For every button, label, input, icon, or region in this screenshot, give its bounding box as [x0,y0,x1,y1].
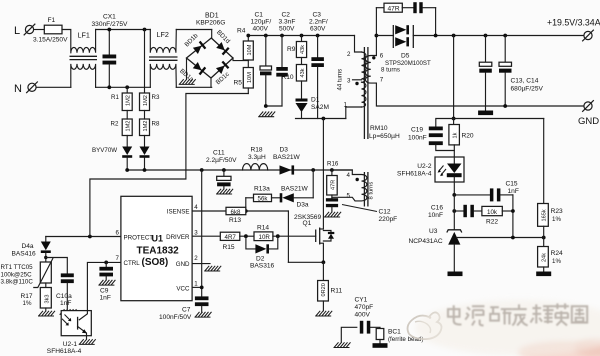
svg-text:C15: C15 [506,181,518,188]
svg-text:220pF: 220pF [379,216,398,223]
svg-text:43k: 43k [300,68,306,77]
svg-text:R13: R13 [229,217,241,224]
svg-text:4: 4 [194,204,198,211]
svg-text:6k8: 6k8 [231,209,242,216]
svg-text:R22: R22 [486,219,498,226]
svg-text:44 turns: 44 turns [338,69,344,91]
svg-text:D3a: D3a [297,202,309,209]
svg-text:PROTECT: PROTECT [124,234,154,241]
svg-text:1: 1 [344,102,348,109]
svg-text:U1: U1 [152,234,164,244]
svg-text:7: 7 [116,255,120,262]
svg-text:D2: D2 [256,256,265,263]
svg-text:3.15A/250V: 3.15A/250V [33,37,68,44]
svg-text:1nF: 1nF [100,295,111,302]
svg-text:3: 3 [194,229,198,236]
svg-text:7: 7 [380,77,384,84]
svg-text:F1: F1 [48,17,56,24]
svg-text:C9: C9 [100,288,109,295]
svg-text:2.2nF/: 2.2nF/ [309,19,328,26]
svg-text:1%: 1% [552,258,561,265]
svg-text:CX1: CX1 [103,14,116,21]
svg-text:10M: 10M [247,72,253,83]
svg-text:1M2: 1M2 [126,95,132,106]
svg-text:C3: C3 [313,12,322,19]
svg-text:C2: C2 [282,12,291,19]
svg-text:SA2M: SA2M [311,104,329,111]
svg-text:KBP206G: KBP206G [196,20,225,27]
svg-text:R1: R1 [111,94,119,101]
svg-text:TEA1832: TEA1832 [137,246,180,257]
svg-text:C13, C14: C13, C14 [511,78,539,85]
svg-text:VCC: VCC [176,285,190,292]
svg-text:1%: 1% [23,300,32,307]
svg-text:6: 6 [116,229,120,236]
svg-text:C12: C12 [379,209,391,216]
svg-text:0R20: 0R20 [321,283,327,296]
svg-text:R17: R17 [21,293,33,300]
svg-text:2: 2 [347,51,351,58]
svg-text:+19.5V/3.34A: +19.5V/3.34A [547,18,600,28]
svg-text:STPS20M100ST: STPS20M100ST [385,60,431,67]
svg-text:R18: R18 [251,147,263,154]
svg-text:1M2: 1M2 [143,121,149,132]
svg-text:100nF: 100nF [408,135,427,142]
svg-text:U2-1: U2-1 [63,341,78,348]
svg-text:630V: 630V [310,26,326,33]
svg-text:BAS21W: BAS21W [281,186,309,193]
svg-text:400V: 400V [253,26,269,33]
svg-text:R20: R20 [462,133,474,140]
svg-text:330nF/275V: 330nF/275V [92,21,129,28]
svg-text:Q1: Q1 [303,220,312,227]
svg-text:BAS416: BAS416 [12,251,37,258]
svg-text:D4a: D4a [22,243,34,250]
svg-text:R9: R9 [287,46,296,53]
svg-text:C1: C1 [255,12,264,19]
svg-text:BD1b: BD1b [183,32,199,48]
svg-text:500V: 500V [279,26,295,33]
svg-text:LF1: LF1 [78,31,90,40]
svg-text:RM10: RM10 [370,125,388,132]
svg-text:BD1: BD1 [205,13,219,20]
svg-text:SFH618A-4: SFH618A-4 [397,171,432,178]
svg-text:1M2: 1M2 [126,121,132,132]
svg-text:8 turns: 8 turns [381,67,400,74]
svg-text:D5: D5 [401,53,410,60]
svg-text:NCP431AC: NCP431AC [409,238,443,245]
svg-text:(SO8): (SO8) [142,257,169,268]
svg-text:100nF/50V: 100nF/50V [159,314,192,321]
svg-text:1%: 1% [552,216,561,223]
svg-text:R11: R11 [331,288,343,295]
svg-text:R15: R15 [223,244,235,251]
svg-text:3: 3 [347,78,351,85]
svg-text:10nF: 10nF [428,212,443,219]
svg-text:47R: 47R [388,6,400,13]
svg-text:56k: 56k [258,196,269,203]
svg-text:BYV70W: BYV70W [92,147,117,154]
svg-text:DRIVER: DRIVER [166,234,190,241]
svg-text:C19: C19 [411,127,423,134]
svg-text:165k: 165k [541,209,547,221]
svg-text:1M2: 1M2 [143,95,149,106]
svg-text:R3: R3 [152,94,160,101]
svg-text:U3: U3 [429,228,438,235]
svg-text:43k: 43k [300,45,306,54]
svg-text:R10: R10 [282,74,294,81]
svg-text:C16: C16 [431,205,443,212]
svg-text:120µF/: 120µF/ [251,19,272,26]
svg-text:C7: C7 [182,307,191,314]
svg-text:ISENSE: ISENSE [167,208,190,215]
svg-text:GND: GND [176,261,190,268]
svg-text:2.2µF/50V: 2.2µF/50V [206,157,237,164]
svg-text:SFH618A-4: SFH618A-4 [47,348,82,355]
svg-text:BC1: BC1 [388,329,401,336]
svg-text:R4: R4 [237,28,246,35]
svg-text:2: 2 [194,255,198,262]
svg-text:4R7: 4R7 [225,234,237,241]
svg-text:R16: R16 [327,161,339,168]
svg-text:1: 1 [194,281,198,288]
svg-text:100k@25C: 100k@25C [1,272,33,279]
svg-text:6: 6 [380,53,384,60]
svg-text:D1: D1 [311,97,320,104]
svg-text:R8: R8 [152,121,160,128]
svg-text:BAS316: BAS316 [250,263,275,270]
svg-text:R23: R23 [551,208,563,215]
svg-text:LF2: LF2 [157,30,169,39]
svg-text:GND: GND [578,116,599,127]
svg-text:10R: 10R [259,234,271,241]
svg-text:1nF: 1nF [508,188,519,195]
svg-text:R13a: R13a [254,186,270,193]
svg-text:10k: 10k [487,209,498,216]
svg-text:470pF: 470pF [355,304,374,311]
svg-text:3k3: 3k3 [44,294,50,303]
svg-text:R24: R24 [551,250,563,257]
svg-text:4: 4 [347,172,351,179]
svg-text:U2-2: U2-2 [417,163,432,170]
svg-text:N: N [14,83,22,95]
svg-text:10M: 10M [247,44,253,55]
svg-text:5: 5 [347,193,351,200]
svg-text:1nF: 1nF [60,300,71,307]
svg-text:400V: 400V [355,312,371,319]
svg-text:Lp=650µH: Lp=650µH [369,133,400,140]
svg-text:C11: C11 [213,150,225,157]
svg-text:680µF/25V: 680µF/25V [511,86,544,93]
svg-text:1k: 1k [453,132,459,138]
svg-text:3.3µH: 3.3µH [248,154,266,161]
svg-text:R14: R14 [257,225,269,232]
svg-text:R5: R5 [234,80,243,87]
svg-text:47R: 47R [330,180,336,190]
svg-text:3.3nF: 3.3nF [279,19,296,26]
svg-text:L: L [14,25,20,37]
svg-text:RT1 TTC05: RT1 TTC05 [1,264,34,271]
svg-text:8 turns: 8 turns [369,182,375,200]
svg-text:CY1: CY1 [355,297,368,304]
svg-text:CTRL: CTRL [124,260,141,267]
svg-text:24k: 24k [541,253,547,262]
svg-text:BD1a: BD1a [178,68,195,84]
svg-text:R2: R2 [111,121,119,128]
svg-text:3.8k@110C: 3.8k@110C [1,279,34,286]
svg-text:BAS21W: BAS21W [273,154,301,161]
svg-text:D3: D3 [280,147,289,154]
